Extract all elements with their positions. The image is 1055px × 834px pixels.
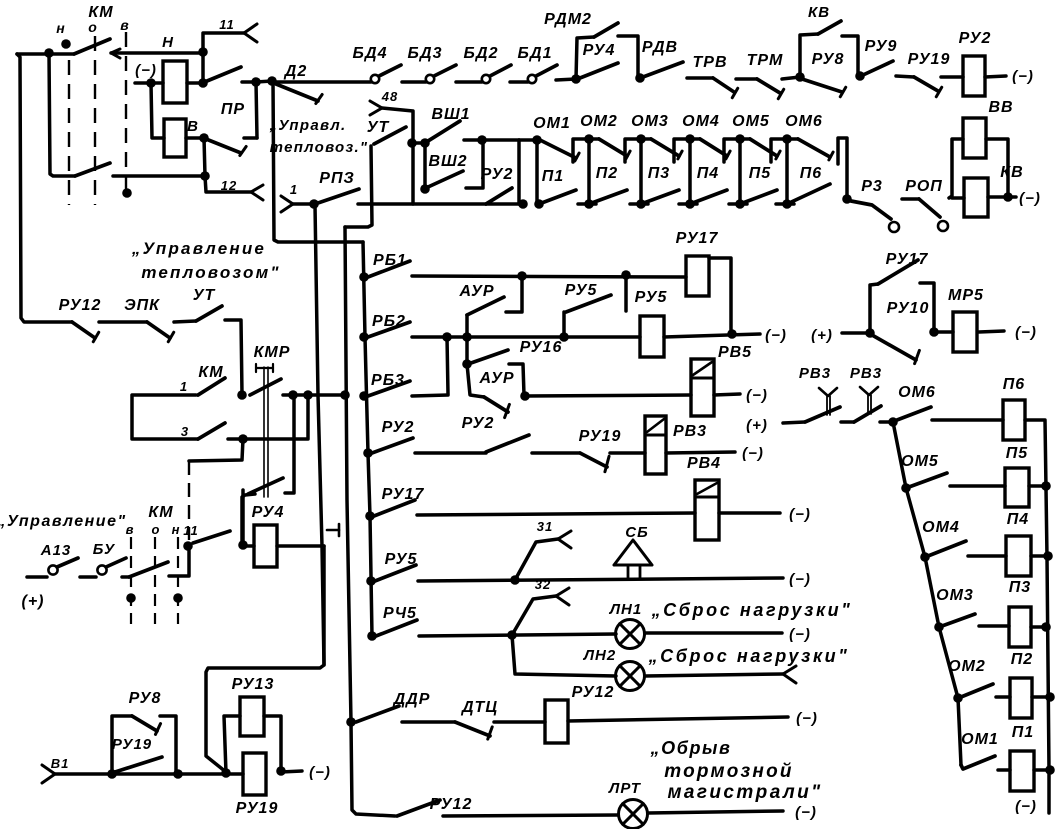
wire (ОМ2 stub) xyxy=(589,137,599,141)
wire (48 lead) xyxy=(382,108,413,204)
wire РБ3 row right xyxy=(525,395,691,396)
label РУ19 (lower contact) xyxy=(112,736,152,753)
coil РВ5 (time relay) xyxy=(691,359,714,416)
svg-text:(−): (−) xyxy=(765,327,787,344)
svg-text:РУ8: РУ8 xyxy=(129,690,162,707)
svg-text:о: о xyxy=(88,19,98,35)
svg-text:П4: П4 xyxy=(1007,511,1029,528)
wire (ОМ6 stub) xyxy=(787,137,798,141)
label 12 xyxy=(221,178,237,193)
junction dot xyxy=(520,391,530,401)
contact ПР-В blade xyxy=(206,139,241,153)
contact КМ1 blade xyxy=(198,378,225,395)
label КВ xyxy=(808,4,830,21)
junction dot ОМ6 xyxy=(888,417,898,427)
coil РВ4 (time relay) xyxy=(695,480,719,540)
coil П2 xyxy=(1010,678,1032,718)
label „Сброс нагрузки“ (1) xyxy=(651,600,853,620)
label ТРВ xyxy=(693,54,728,71)
wire (ОМ3-ОМ2) xyxy=(939,627,958,698)
junction dot xyxy=(865,328,875,338)
contact ОМ4-л blade xyxy=(928,541,966,556)
contact РУ8-2 tick xyxy=(155,724,160,735)
label ОМ1 (ladder) xyxy=(961,731,999,748)
label РУ17 (bus) xyxy=(382,486,425,503)
label ОМ5 xyxy=(732,113,770,130)
wire xyxy=(968,554,1006,558)
wire xyxy=(402,720,455,724)
junction dot xyxy=(200,171,210,181)
wire (ОМ3 stub) xyxy=(641,137,651,141)
contact ОМ4 blade xyxy=(700,139,727,156)
wire (РУ17-3 fixed) xyxy=(920,283,934,332)
label БД2 xyxy=(464,45,499,62)
label (−) xyxy=(1015,324,1037,341)
wire (РДМ2 branch up) xyxy=(576,37,594,79)
label РУ5 (coil) xyxy=(635,289,668,306)
label в (lower) xyxy=(126,522,135,537)
wire (РУ13 right side) xyxy=(264,716,281,771)
terminal chevron 32 xyxy=(556,588,569,605)
junction dot xyxy=(288,390,298,400)
svg-text:СБ: СБ xyxy=(625,524,648,541)
svg-text:РУ12: РУ12 xyxy=(430,796,473,813)
label РВ5 xyxy=(718,344,752,361)
junction dot xyxy=(173,769,183,779)
svg-text:В1: В1 xyxy=(51,756,70,771)
label П5 (coil) xyxy=(1006,445,1029,462)
svg-text:КМ: КМ xyxy=(148,504,173,521)
contact РУ19-2 blade xyxy=(580,453,607,467)
contact БД3 loop xyxy=(426,75,434,83)
label РУ17 xyxy=(676,230,719,247)
wire xyxy=(174,321,196,322)
wire xyxy=(932,418,1003,422)
wire (hanger 3) xyxy=(674,139,690,162)
svg-text:РЧ5: РЧ5 xyxy=(383,605,417,622)
svg-text:БД2: БД2 xyxy=(464,45,499,62)
label „Управление xyxy=(131,239,266,258)
junction dot xyxy=(420,138,430,148)
coil РУ2 xyxy=(963,56,985,96)
label Н xyxy=(162,34,174,51)
contact А13 blade xyxy=(57,558,78,567)
svg-text:ЛРТ: ЛРТ xyxy=(608,780,642,797)
junction dot xyxy=(1041,622,1051,632)
wire (П5 stub) xyxy=(729,202,747,206)
label 11 xyxy=(219,17,235,32)
svg-text:П1: П1 xyxy=(1012,724,1034,741)
svg-text:П5: П5 xyxy=(1006,445,1029,462)
wire xyxy=(413,141,425,145)
label (−) xyxy=(1019,190,1041,207)
label ВШ1 xyxy=(431,106,470,123)
wire xyxy=(687,76,713,80)
label ЛН1 xyxy=(609,601,642,618)
contact А13 loop xyxy=(48,565,57,574)
label РУ19 (middle) xyxy=(579,428,622,445)
wire РБ2 row xyxy=(412,335,640,339)
label П6 xyxy=(800,165,822,182)
junction dot xyxy=(199,133,209,143)
label РУ12 (bus) xyxy=(430,796,473,813)
contact ОМ1 arrow xyxy=(575,153,579,161)
junction dot xyxy=(420,184,430,194)
label СБ xyxy=(625,524,648,541)
svg-text:П2: П2 xyxy=(1011,651,1033,668)
wire (ОМ5-ОМ4) xyxy=(906,488,925,557)
wire РБ1 row xyxy=(412,276,686,277)
junction dot xyxy=(477,135,487,145)
dashed column н (lower) xyxy=(177,537,179,624)
label ВВ xyxy=(988,99,1013,116)
svg-text:Н: Н xyxy=(162,34,174,51)
label магистрали“ xyxy=(667,782,822,803)
contact БУ loop xyxy=(97,565,106,574)
wire РУ2 row xyxy=(415,451,486,455)
wire (АУР drop) xyxy=(506,276,522,312)
wire Н xyxy=(111,51,203,55)
label ПР xyxy=(221,101,245,118)
wire xyxy=(556,79,576,80)
svg-text:РВ3: РВ3 xyxy=(850,365,882,382)
label н xyxy=(56,20,65,36)
dot on в column (lower) xyxy=(126,593,136,603)
junction dot ОМ3 xyxy=(934,622,944,632)
contact РУ8 tick xyxy=(840,87,846,97)
label П5 xyxy=(749,165,772,182)
contact ОМ3-л blade xyxy=(942,614,975,626)
label о xyxy=(88,19,98,35)
wire xyxy=(842,331,870,335)
junction dot (bottom П3) xyxy=(636,199,646,209)
terminal chevron В1 xyxy=(42,765,55,783)
svg-text:„Управление": „Управление" xyxy=(0,513,127,530)
label (+) (РВ3 row) xyxy=(746,417,768,434)
wire (vertical П1) xyxy=(535,140,539,204)
label о (lower) xyxy=(152,522,161,537)
junction dot ОМ2 xyxy=(953,693,963,703)
label РБ3 xyxy=(371,372,405,389)
wire xyxy=(256,81,272,82)
junction dot xyxy=(727,329,737,339)
wire xyxy=(1032,695,1050,699)
label ВШ2 xyxy=(428,153,467,170)
svg-text:(−): (−) xyxy=(1015,324,1037,341)
svg-text:1: 1 xyxy=(290,182,298,197)
junction dot xyxy=(198,47,208,57)
wire (КМ1/КМ3 left side) xyxy=(132,395,198,439)
contact РБ2 blade xyxy=(368,322,410,337)
svg-text:ОМ3: ОМ3 xyxy=(631,113,669,130)
svg-text:П5: П5 xyxy=(749,165,772,182)
contact ОМ2-л blade xyxy=(961,684,993,697)
svg-text:РУ4: РУ4 xyxy=(252,504,285,521)
label РУ8 xyxy=(812,51,845,68)
junction dot (bottom П6) xyxy=(782,199,792,209)
label тепловозом“ xyxy=(141,263,280,282)
wire xyxy=(1034,768,1050,772)
junction dot (bottom П5) xyxy=(735,199,745,209)
label ДДР xyxy=(392,691,431,708)
svg-text:П2: П2 xyxy=(596,165,618,182)
svg-text:„Сброс нагрузки": „Сброс нагрузки" xyxy=(651,600,853,620)
label КМ (reverser) xyxy=(88,4,113,21)
contact РУ12-бус blade xyxy=(397,800,440,816)
svg-text:УТ: УТ xyxy=(193,287,216,304)
svg-text:РДМ2: РДМ2 xyxy=(544,11,592,28)
svg-text:РУ8: РУ8 xyxy=(812,51,845,68)
label (−) xyxy=(765,327,787,344)
dot on н column (lower) xyxy=(173,593,183,603)
svg-text:ВВ: ВВ xyxy=(988,99,1013,116)
label ЭПК xyxy=(124,297,160,314)
wire (КМ3 output up) xyxy=(228,395,308,439)
contact ТРМ tick xyxy=(778,89,784,99)
junction dot xyxy=(237,390,247,400)
label РВ3 (coil) xyxy=(673,423,707,440)
junction dot xyxy=(1003,192,1013,202)
wire (to КМ1 row) xyxy=(225,320,242,394)
wire xyxy=(979,624,1009,628)
svg-text:ПР: ПР xyxy=(221,101,245,118)
wire xyxy=(186,136,204,140)
wire (to В winding) xyxy=(151,83,164,138)
svg-text:(−): (−) xyxy=(1019,190,1041,207)
svg-text:П3: П3 xyxy=(648,165,670,182)
contact РУ19 blade xyxy=(914,77,938,91)
contact РУ2-бус blade xyxy=(372,438,413,453)
contact ОМ4 arrow xyxy=(726,151,730,159)
wire xyxy=(135,81,163,85)
junction dot (top П3) xyxy=(636,134,646,144)
contact ЭПК tick xyxy=(168,332,174,342)
label БУ xyxy=(93,541,116,558)
svg-text:„Управление: „Управление xyxy=(131,239,266,258)
wire (РУ16 fixed side) xyxy=(509,364,524,395)
label В1 xyxy=(51,756,70,771)
wire (hanger 1) xyxy=(573,139,589,162)
junction dot (top П5) xyxy=(735,134,745,144)
wire (П2 stub) xyxy=(578,202,596,206)
junction dot ОМ4 xyxy=(920,552,930,562)
contact РУ9 blade xyxy=(863,61,893,75)
wire xyxy=(645,631,782,635)
wire xyxy=(494,720,545,724)
lamp ЛРТ xyxy=(619,800,648,829)
junction dot (top П1) xyxy=(532,135,542,145)
contact РУ19-3 blade xyxy=(115,757,162,772)
svg-text:(−): (−) xyxy=(746,387,768,404)
wire xyxy=(456,80,482,84)
wire xyxy=(736,77,757,81)
svg-text:П1: П1 xyxy=(542,168,564,185)
wire (vertical П3) xyxy=(639,139,643,204)
svg-text:(+): (+) xyxy=(22,593,45,610)
wire xyxy=(243,544,254,548)
label БД1 xyxy=(518,45,553,62)
wire (branch 32) xyxy=(512,596,556,635)
label ОМ2 xyxy=(580,113,618,130)
label 31 xyxy=(537,519,553,534)
junction dot xyxy=(363,448,373,458)
contact ОМ1 blade xyxy=(540,140,576,158)
dashed column в (lower) xyxy=(130,537,132,624)
svg-text:РУ19: РУ19 xyxy=(112,736,152,753)
svg-text:РВ3: РВ3 xyxy=(673,423,707,440)
svg-text:РВ4: РВ4 xyxy=(687,455,721,472)
junction dot (Р3 node) xyxy=(842,194,852,204)
svg-text:ОМ4: ОМ4 xyxy=(682,113,720,130)
wire xyxy=(950,484,1005,488)
svg-text:МР5: МР5 xyxy=(948,287,984,304)
label РЧ5 xyxy=(383,605,417,622)
contact УТ blade xyxy=(374,127,406,144)
wire (КВ branch up) xyxy=(800,34,818,77)
svg-text:ЛН1: ЛН1 xyxy=(609,601,642,618)
label РОП xyxy=(905,178,943,195)
wire (to node 12) xyxy=(204,138,205,176)
junction dot xyxy=(1045,692,1055,702)
svg-text:РОП: РОП xyxy=(905,178,943,195)
wire (РПЗ bus down) xyxy=(315,205,324,665)
wire (РУ17-3 drop) xyxy=(870,284,878,333)
coil ВВ xyxy=(963,118,986,158)
svg-text:БУ: БУ xyxy=(93,541,116,558)
svg-text:„Обрыв: „Обрыв xyxy=(650,738,732,758)
contact ТРВ tick xyxy=(732,88,738,98)
wire xyxy=(896,76,914,77)
wire xyxy=(902,197,919,201)
wire РУ12 row xyxy=(443,815,618,816)
terminal chevron 48 xyxy=(370,101,382,115)
wire xyxy=(510,80,528,84)
wire xyxy=(80,575,96,579)
contact РУ5 blade xyxy=(566,295,611,312)
contact Р3 blade xyxy=(851,201,891,219)
wire xyxy=(998,768,1010,772)
label 11 (lower) xyxy=(183,523,199,538)
wire xyxy=(293,202,314,206)
contact РБ3 blade xyxy=(368,381,410,396)
label РУ12 (coil) xyxy=(572,684,615,701)
wire (ОМ5 stub) xyxy=(740,137,750,141)
label АУР (lower) xyxy=(478,370,514,387)
wire xyxy=(519,138,536,142)
wire (ОМ2-ОМ1) xyxy=(958,698,961,765)
svg-text:РУ4: РУ4 xyxy=(583,42,616,59)
junction dot xyxy=(510,575,520,585)
contact РУ10 tick xyxy=(915,350,920,363)
junction dot xyxy=(346,717,356,727)
contact ПР-Н blade xyxy=(207,67,241,81)
contact БД2 blade xyxy=(490,65,511,76)
label ОМ6 xyxy=(785,113,823,130)
wire row1 xyxy=(272,80,371,84)
label (−) xyxy=(789,506,811,523)
contact РВ3-2 blade xyxy=(854,406,881,422)
svg-text:н: н xyxy=(56,20,65,36)
svg-text:РУ12: РУ12 xyxy=(59,297,102,314)
contact КМ-вон blade xyxy=(129,562,168,577)
svg-text:РУ12: РУ12 xyxy=(572,684,615,701)
contact П2 blade xyxy=(589,190,627,204)
label „Обрыв xyxy=(650,738,732,758)
contact РОП blade xyxy=(919,199,940,217)
wire (П3 stub) xyxy=(630,202,648,206)
svg-text:ВШ1: ВШ1 xyxy=(431,106,470,123)
coil П5 xyxy=(1005,468,1029,507)
contact КМР lower blade xyxy=(248,478,283,494)
svg-text:Р3: Р3 xyxy=(861,178,883,195)
wire (П4 stub) xyxy=(679,202,697,206)
contact РДМ2 blade xyxy=(594,23,618,37)
terminal chevron (ЛН2) xyxy=(783,666,796,683)
wire xyxy=(122,575,129,579)
label (−) (ladder) xyxy=(1015,798,1037,815)
wire xyxy=(532,451,580,455)
label РУ9 xyxy=(865,38,898,55)
wire РБ3 row xyxy=(412,395,448,396)
svg-text:РУ2: РУ2 xyxy=(959,30,992,47)
label 48 xyxy=(381,89,398,104)
contact Д2 tick xyxy=(316,94,322,103)
svg-text:(−): (−) xyxy=(789,571,811,588)
contact БД2 loop xyxy=(482,75,490,83)
svg-text:(−): (−) xyxy=(309,764,331,781)
label (−) xyxy=(789,626,811,643)
junction dot xyxy=(183,541,193,551)
svg-text:ОМ5: ОМ5 xyxy=(732,113,770,130)
junction dot xyxy=(221,768,231,778)
label (+) xyxy=(811,327,833,344)
junction dot (bottom П1) xyxy=(518,199,528,209)
contact РУ2-2 blade xyxy=(486,435,529,452)
coil КВ xyxy=(964,178,988,217)
wire РЧ5 row xyxy=(419,634,616,636)
label ОМ6 (ladder) xyxy=(898,384,936,401)
wire xyxy=(645,674,783,676)
junction dot xyxy=(795,72,805,82)
label РУ13 xyxy=(232,676,275,693)
valve РВ3-2 stem xyxy=(860,387,878,414)
wire xyxy=(281,771,302,772)
label ТРМ xyxy=(747,52,784,69)
label П3 xyxy=(648,165,670,182)
svg-text:РУ17: РУ17 xyxy=(676,230,719,247)
contact ОМ2 arrow xyxy=(626,151,630,159)
junction dot xyxy=(366,576,376,586)
wire xyxy=(244,136,257,140)
contact ОМ6 blade xyxy=(798,139,830,157)
junction dot xyxy=(621,270,631,280)
junction dot xyxy=(276,766,286,776)
wire xyxy=(465,337,469,364)
contact БД4 blade xyxy=(379,65,401,76)
coil П3 xyxy=(1009,607,1031,647)
svg-text:ОМ6: ОМ6 xyxy=(898,384,936,401)
wire xyxy=(1029,484,1046,488)
svg-text:в: в xyxy=(120,17,129,33)
label БД3 xyxy=(408,45,443,62)
terminal chevron 11 xyxy=(244,24,257,42)
wire xyxy=(1031,554,1048,558)
contact КМ3 blade xyxy=(198,423,225,439)
coil РВ3 (time relay) xyxy=(645,416,666,474)
wire РУ5 row xyxy=(418,578,783,581)
svg-text:П6: П6 xyxy=(800,165,822,182)
wire xyxy=(666,452,735,453)
